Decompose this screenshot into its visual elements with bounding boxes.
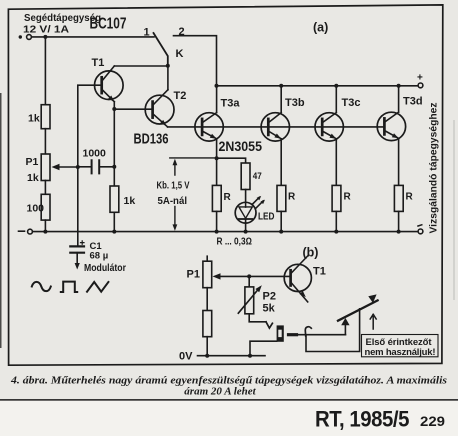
wire: modulator line crossing rail	[77, 167, 79, 246]
svg-text:229: 229	[420, 413, 445, 429]
horizontal rule	[0, 399, 458, 401]
node: bottom of left column	[43, 230, 47, 234]
svg-text:T3a: T3a	[221, 98, 241, 110]
svg-text:1k: 1k	[27, 172, 39, 184]
lower contact triangle	[341, 318, 349, 325]
switch K blade	[154, 33, 168, 65]
capacitor C1 68u	[70, 246, 84, 252]
resistor R (T3d)	[398, 138, 400, 185]
svg-text:5k: 5k	[263, 303, 276, 315]
note box: Első érintkezőt nem használjuk!	[362, 335, 439, 357]
svg-text:Kb. 1,5 V: Kb. 1,5 V	[157, 180, 190, 192]
svg-text:T2: T2	[174, 90, 187, 102]
wire: branch to 47 resistor	[217, 158, 246, 163]
node: collector rail corner	[215, 84, 219, 88]
transistor T3d	[377, 112, 405, 140]
wire: down to coupling cap node	[113, 109, 115, 167]
transistor T3a (2N3055)	[195, 113, 223, 141]
svg-text:T3b: T3b	[285, 97, 305, 109]
icon: square wave	[61, 282, 77, 292]
potentiometer P1 (part b)	[206, 256, 208, 261]
svg-text:BC107: BC107	[90, 16, 127, 33]
svg-text:P1: P1	[187, 269, 200, 281]
svg-text:R: R	[344, 192, 352, 203]
svg-text:100: 100	[27, 203, 45, 215]
contact flag (unused first contact)	[368, 294, 376, 303]
CAPTION	[0, 376, 458, 432]
wire: plug sleeve to 0V	[250, 341, 277, 356]
icon: triangle wave	[87, 282, 108, 292]
svg-text:1000: 1000	[83, 148, 107, 160]
node: junction on 12V rail	[43, 35, 47, 39]
node: cap junction	[112, 165, 116, 169]
wire: 12V rail	[32, 36, 155, 38]
svg-text:R: R	[224, 192, 232, 203]
wire: T3a emitter	[216, 139, 218, 186]
transistor T3b	[261, 113, 289, 141]
wire: P2 bottom to jack contact	[249, 314, 266, 322]
svg-text:T3c: T3c	[342, 97, 361, 109]
resistor 1k (middle)	[113, 167, 115, 186]
svg-text:T1: T1	[313, 266, 326, 278]
frame border	[8, 5, 442, 365]
wire: left column top	[44, 37, 46, 105]
wire: base rail to output transistors	[168, 126, 385, 128]
capacitor 1000	[78, 166, 91, 168]
resistor 47	[241, 163, 250, 190]
svg-text:+: +	[417, 73, 423, 84]
svg-text:áram 20 A lehet: áram 20 A lehet	[184, 386, 256, 398]
resistor R (T3c)	[335, 139, 337, 186]
wire: bottom rail	[30, 231, 418, 233]
svg-text:BD136: BD136	[134, 132, 169, 148]
node: switch common	[166, 64, 170, 68]
resistor below P1b	[206, 288, 208, 311]
wire: collector rail	[217, 85, 419, 87]
page scan edge (left)	[0, 93, 2, 348]
annotation arrow (points at first contact)	[370, 314, 376, 329]
wire: T1 collector to switch node	[114, 65, 167, 67]
svg-text:nem használjuk!: nem használjuk!	[365, 347, 436, 358]
wire: T1 base line	[78, 85, 102, 167]
node: wiper/base junction	[247, 274, 251, 278]
svg-text:R: R	[406, 192, 414, 203]
svg-text:12 V/ 1A: 12 V/ 1A	[23, 24, 69, 36]
svg-text:R: R	[288, 192, 296, 203]
node: middle 1k bottom	[112, 230, 116, 234]
svg-text:5A-nál: 5A-nál	[158, 195, 188, 207]
node: P1b bottom on 0V rail	[205, 354, 209, 358]
trimmer P2 5k	[248, 276, 250, 287]
LED D1	[235, 202, 256, 223]
svg-text:1: 1	[144, 27, 150, 39]
resistor 100	[41, 194, 50, 220]
svg-text:(b): (b)	[303, 246, 319, 260]
wire: T1 emitter down	[113, 102, 115, 109]
SCHEMATIC-B	[179, 246, 438, 363]
svg-text:Modulátor: Modulátor	[84, 263, 126, 274]
svg-text:RT, 1985/5: RT, 1985/5	[315, 407, 409, 432]
wire	[44, 181, 46, 195]
wiper arrow of P1b	[220, 275, 250, 277]
wiper arrow of P1	[59, 166, 78, 168]
wire: hook to blade pivot (U link)	[306, 309, 360, 352]
svg-text:T1: T1	[92, 57, 105, 69]
label: Segédtápegység 12V/1A	[23, 12, 101, 36]
svg-text:P2: P2	[263, 291, 276, 303]
svg-text:LED: LED	[258, 212, 275, 223]
wire: T2 collector up to switch node	[167, 66, 169, 90]
wire: switch position 2	[174, 36, 217, 86]
wire	[44, 129, 46, 154]
wire: base line to T1b	[249, 275, 290, 277]
transistor T3c	[315, 113, 343, 141]
wire: LED to rail	[245, 223, 247, 232]
svg-text:68 µ: 68 µ	[90, 251, 109, 262]
transistor T2 (BD136)	[145, 95, 174, 124]
resistor R (T3b)	[280, 139, 282, 186]
jack plug body	[277, 325, 284, 341]
node: wiper junction	[76, 165, 80, 169]
icon: sine wave	[32, 282, 51, 291]
svg-text:T3d: T3d	[403, 96, 423, 108]
annotation: Kb. 1,5V measurement	[170, 157, 217, 159]
svg-text:2N3055: 2N3055	[219, 138, 263, 154]
jack spring contact (check)	[266, 322, 272, 328]
wire: 0V rail	[198, 355, 266, 357]
svg-text:(a): (a)	[313, 21, 328, 35]
jack tip hook contact	[305, 327, 311, 336]
potentiometer P1 (1k)	[41, 154, 50, 181]
svg-text:1k: 1k	[28, 113, 40, 125]
wire: to T2 base	[114, 108, 152, 110]
node: T1 emitter junction	[112, 107, 116, 111]
node: T3a emitter junction	[215, 156, 219, 160]
svg-text:1k: 1k	[124, 195, 136, 207]
svg-text:P1: P1	[26, 156, 39, 168]
wire: plug tip lead	[288, 334, 345, 336]
svg-text:Vizsgálandó tápegységhez: Vizsgálandó tápegységhez	[429, 103, 440, 234]
input terminal - (bottom left)	[28, 229, 33, 234]
resistor 1k (top left)	[41, 105, 50, 129]
wire to bottom rail	[44, 220, 46, 232]
transistor T1 (BC107)	[95, 71, 124, 100]
transistor T1 (part b)	[284, 264, 311, 291]
svg-text:47: 47	[253, 171, 262, 182]
svg-text:K: K	[176, 48, 184, 60]
input terminal + (dot and circle)	[19, 35, 22, 38]
SCHEMATIC-A	[19, 12, 440, 292]
switch blade	[338, 300, 378, 320]
output terminal +	[418, 83, 423, 88]
svg-text:0V: 0V	[179, 351, 193, 363]
output terminal -	[418, 229, 423, 234]
svg-text:R ... 0,3Ω: R ... 0,3Ω	[217, 237, 253, 248]
resistor R (T3a emitter)	[212, 185, 221, 211]
